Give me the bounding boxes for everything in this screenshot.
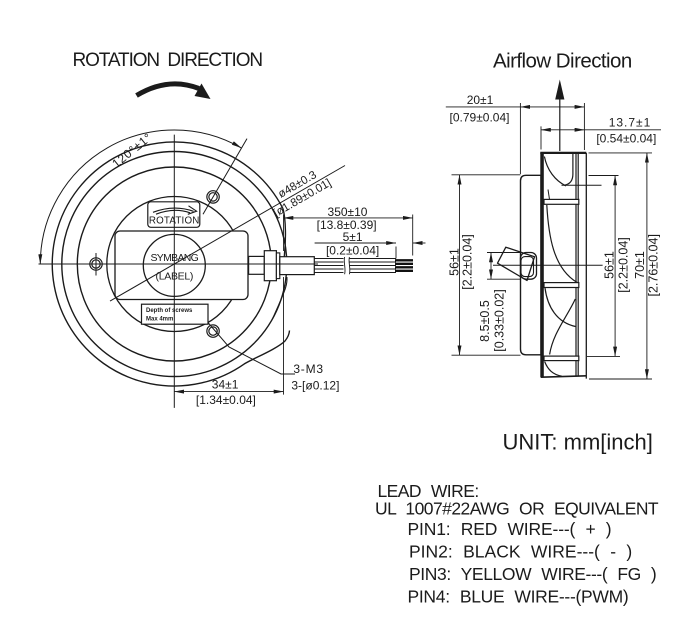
svg-text:Airflow Direction: Airflow Direction xyxy=(493,50,632,73)
svg-text:[2.2±0.04]: [2.2±0.04] xyxy=(461,234,475,290)
svg-text:13.7±1: 13.7±1 xyxy=(609,116,652,130)
svg-text:ROTATION DIRECTION: ROTATION DIRECTION xyxy=(73,50,263,71)
svg-text:34±1: 34±1 xyxy=(212,378,239,392)
svg-text:PIN2: BLACK WIRE---( - ): PIN2: BLACK WIRE---( - ) xyxy=(409,542,632,562)
svg-text:Max 4mm: Max 4mm xyxy=(146,317,173,323)
svg-text:[1.34±0.04]: [1.34±0.04] xyxy=(196,393,256,407)
svg-text:70±1: 70±1 xyxy=(633,251,647,279)
svg-text:[0.2±0.04]: [0.2±0.04] xyxy=(326,244,379,258)
svg-text:[0.33±0.02]: [0.33±0.02] xyxy=(493,289,507,351)
svg-text:PIN3: YELLOW WIRE---( FG ): PIN3: YELLOW WIRE---( FG ) xyxy=(409,564,656,584)
svg-text:8.5±0.5: 8.5±0.5 xyxy=(478,300,492,342)
svg-text:3-[ø0.12]: 3-[ø0.12] xyxy=(291,379,339,393)
svg-text:[2.2±0.04]: [2.2±0.04] xyxy=(617,237,631,293)
svg-text:(LABEL): (LABEL) xyxy=(156,271,194,283)
svg-text:[0.54±0.04]: [0.54±0.04] xyxy=(596,131,656,145)
svg-text:56±1: 56±1 xyxy=(448,248,462,276)
svg-text:56±1: 56±1 xyxy=(603,251,617,279)
svg-text:PIN1: RED WIRE---( + ): PIN1: RED WIRE---( + ) xyxy=(408,519,612,539)
svg-text:Depth of screws: Depth of screws xyxy=(146,308,193,314)
svg-text:[0.79±0.04]: [0.79±0.04] xyxy=(450,111,510,125)
svg-text:PIN4: BLUE WIRE---(PWM): PIN4: BLUE WIRE---(PWM) xyxy=(408,587,629,607)
svg-text:5±1: 5±1 xyxy=(343,230,363,244)
svg-text:SYMBANG: SYMBANG xyxy=(150,252,198,264)
svg-text:20±1: 20±1 xyxy=(467,93,494,107)
svg-text:3-M3: 3-M3 xyxy=(293,362,324,376)
svg-text:UNIT: mm[inch]: UNIT: mm[inch] xyxy=(503,430,653,455)
svg-text:UL 1007#22AWG OR EQUIVALENT: UL 1007#22AWG OR EQUIVALENT xyxy=(375,499,659,519)
svg-text:350±10: 350±10 xyxy=(328,205,368,219)
svg-text:[2.76±0.04]: [2.76±0.04] xyxy=(647,234,661,296)
